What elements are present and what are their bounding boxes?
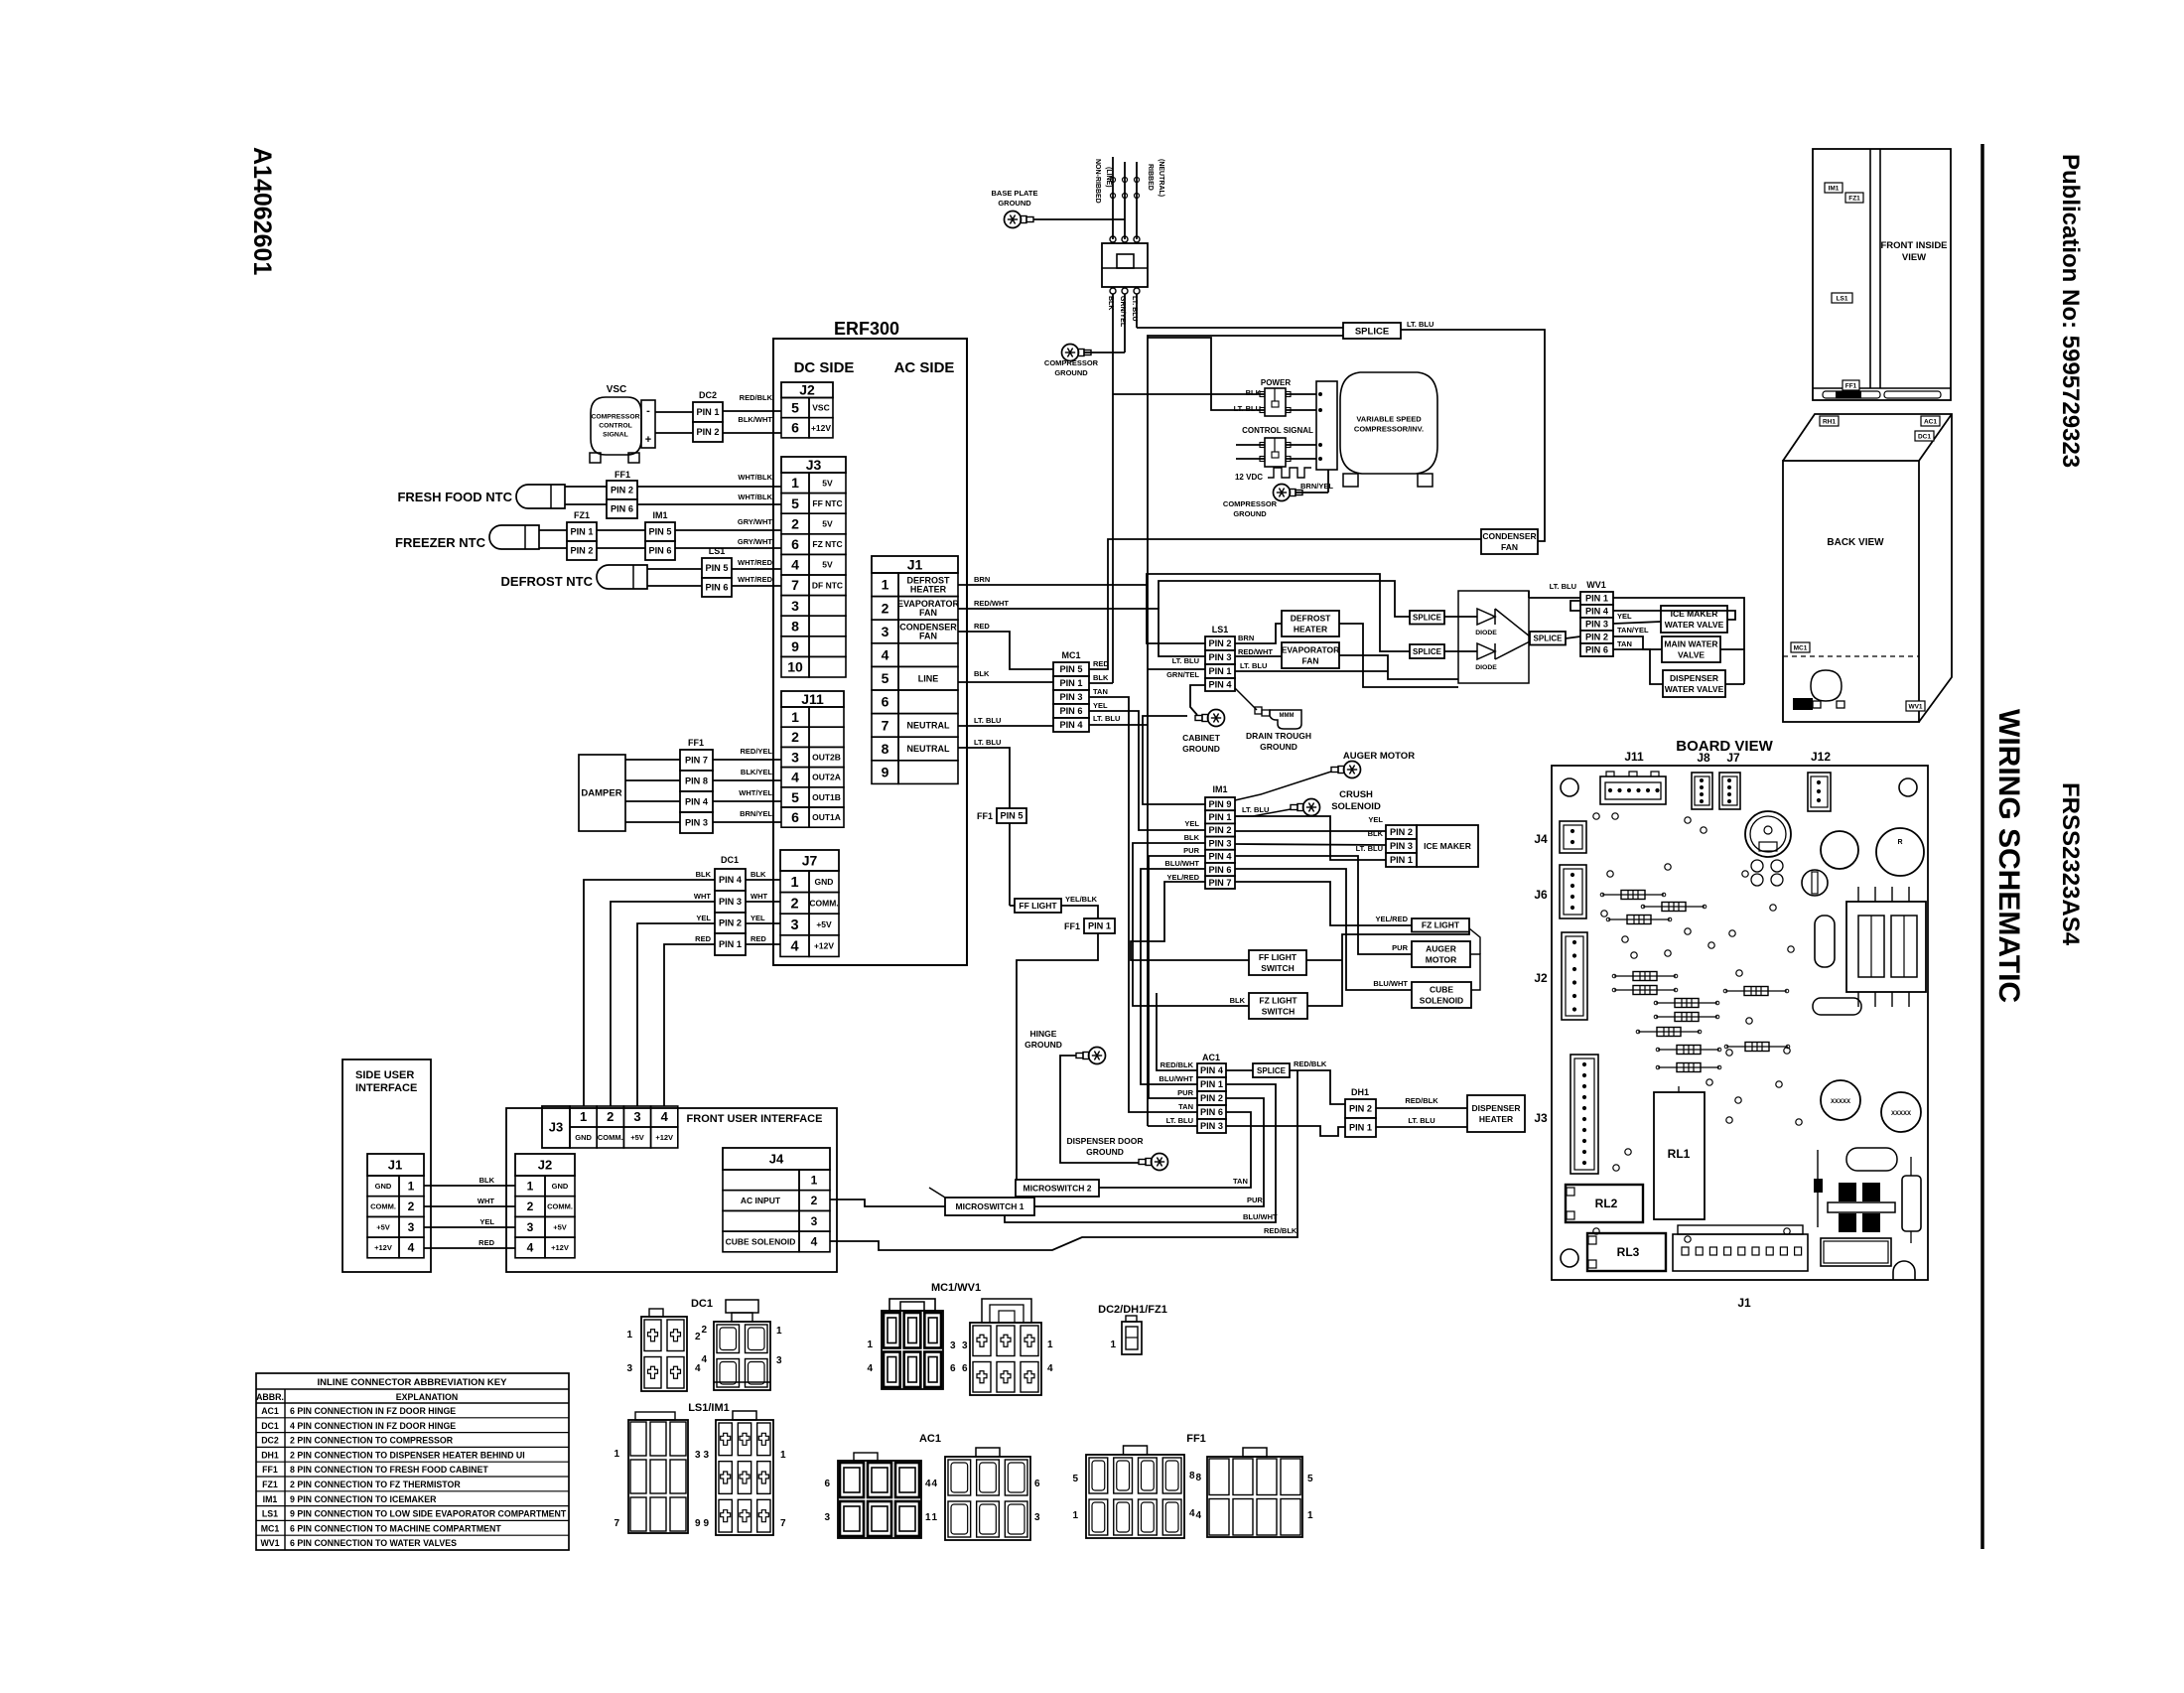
svg-text:YEL: YEL xyxy=(479,1217,494,1226)
svg-text:PIN 5: PIN 5 xyxy=(1001,811,1024,821)
svg-text:OUT1B: OUT1B xyxy=(812,792,841,802)
connector J11 table xyxy=(781,691,844,707)
svg-text:J11: J11 xyxy=(801,691,824,707)
svg-text:GRY/WHT: GRY/WHT xyxy=(738,537,773,546)
svg-text:BLK: BLK xyxy=(974,669,990,678)
board crystal xyxy=(1802,870,1828,896)
svg-text:6 PIN CONNECTION TO WATER VALV: 6 PIN CONNECTION TO WATER VALVES xyxy=(290,1538,457,1548)
svg-text:+12V: +12V xyxy=(551,1243,569,1252)
connector J7 table xyxy=(780,850,839,871)
svg-text:OUT2B: OUT2B xyxy=(812,752,841,762)
svg-text:GND: GND xyxy=(575,1133,592,1142)
svg-text:COMPRESSOR: COMPRESSOR xyxy=(1223,499,1278,508)
svg-text:HEATER: HEATER xyxy=(910,584,947,594)
svg-text:AC1: AC1 xyxy=(1202,1053,1220,1062)
svg-text:PIN 2: PIN 2 xyxy=(611,486,633,495)
svg-text:GROUND: GROUND xyxy=(1260,742,1297,752)
connector face LS1/IM1 plug xyxy=(628,1420,688,1533)
svg-text:RED/BLK: RED/BLK xyxy=(1160,1060,1194,1069)
svg-text:2: 2 xyxy=(607,1109,614,1124)
wire IM1 pin9 to cabinet ground bus xyxy=(1143,716,1205,804)
svg-text:PIN 1: PIN 1 xyxy=(1349,1123,1372,1133)
svg-text:FZ LIGHT: FZ LIGHT xyxy=(1422,920,1460,930)
connector J3 table xyxy=(781,457,846,473)
svg-text:YEL/RED: YEL/RED xyxy=(1375,915,1408,923)
svg-text:INTERFACE: INTERFACE xyxy=(355,1082,417,1094)
svg-text:BLK: BLK xyxy=(1093,673,1109,682)
wire FZ light switch to FZ light xyxy=(1307,931,1469,1006)
wire splice3 to WV1 pin2 xyxy=(1566,636,1580,638)
svg-text:3: 3 xyxy=(408,1220,415,1234)
svg-text:YEL: YEL xyxy=(1617,612,1632,621)
board relay RL1 xyxy=(1654,1092,1705,1219)
connector face DC2/DH1/FZ1 xyxy=(1122,1322,1142,1354)
svg-text:FF LIGHT: FF LIGHT xyxy=(1259,952,1297,962)
svg-text:MAIN WATER: MAIN WATER xyxy=(1664,638,1717,648)
svg-text:MICROSWITCH 2: MICROSWITCH 2 xyxy=(1024,1183,1092,1193)
svg-text:+5V: +5V xyxy=(376,1222,390,1231)
svg-text:1: 1 xyxy=(791,709,799,725)
svg-text:SOLENOID: SOLENOID xyxy=(1331,801,1381,812)
svg-text:3: 3 xyxy=(527,1220,534,1234)
svg-text:LT. BLU: LT. BLU xyxy=(974,716,1001,725)
wire DH1 pin2 to dispenser heater RED/BLK xyxy=(1376,1107,1467,1109)
svg-text:WV1: WV1 xyxy=(260,1538,279,1548)
svg-text:LT. BLU: LT. BLU xyxy=(1407,320,1433,329)
splice box 2 xyxy=(1410,644,1444,658)
wire LS1 pin1 right to neutral rail xyxy=(1235,670,1388,672)
svg-text:FF1: FF1 xyxy=(977,811,993,821)
svg-text:J2: J2 xyxy=(1534,971,1548,985)
label LS1 (front view) xyxy=(1832,293,1852,303)
microswitch 1 xyxy=(945,1198,1034,1215)
svg-text:PIN 3: PIN 3 xyxy=(1209,652,1232,662)
svg-text:FREEZER NTC: FREEZER NTC xyxy=(395,535,486,550)
svg-text:6: 6 xyxy=(1034,1479,1040,1489)
svg-text:AC1: AC1 xyxy=(261,1406,279,1416)
FF light box xyxy=(1015,899,1061,913)
svg-text:YEL/RED: YEL/RED xyxy=(1166,873,1199,882)
svg-text:2 PIN CONNECTION TO COMPRESSOR: 2 PIN CONNECTION TO COMPRESSOR xyxy=(290,1436,454,1446)
svg-text:YEL: YEL xyxy=(696,914,711,922)
svg-text:9: 9 xyxy=(882,765,889,780)
wire AC1 pin3 run to DH1 pin1 xyxy=(1226,1126,1345,1136)
svg-text:LINE: LINE xyxy=(918,673,939,683)
svg-text:3: 3 xyxy=(1034,1512,1040,1523)
wire J1 condenser fan RED to MC1 pin5 xyxy=(958,632,1053,669)
svg-text:FZ1: FZ1 xyxy=(1848,195,1860,202)
variable speed compressor blob xyxy=(1340,372,1437,474)
svg-text:PIN 3: PIN 3 xyxy=(1390,841,1413,851)
svg-text:BLK: BLK xyxy=(751,870,766,879)
svg-text:FF1: FF1 xyxy=(1845,382,1857,389)
svg-text:PIN 1: PIN 1 xyxy=(1585,594,1608,604)
wire J4 AC input to microswitch 1 xyxy=(830,1199,945,1206)
svg-text:WV1: WV1 xyxy=(1586,580,1606,590)
svg-text:4: 4 xyxy=(790,939,798,955)
svg-text:WHT/BLK: WHT/BLK xyxy=(738,473,772,482)
svg-text:BLK/YEL: BLK/YEL xyxy=(741,768,773,776)
svg-text:DIODE: DIODE xyxy=(1475,664,1497,671)
svg-text:FF1: FF1 xyxy=(614,470,630,480)
svg-text:LT. BLU: LT. BLU xyxy=(1242,805,1269,814)
board capacitor C1 xyxy=(1821,831,1858,869)
board output transformer xyxy=(1828,1202,1895,1212)
svg-text:RED/BLK: RED/BLK xyxy=(1294,1059,1327,1068)
svg-text:GRY/WHT: GRY/WHT xyxy=(738,517,773,526)
svg-text:DISPENSER DOOR: DISPENSER DOOR xyxy=(1067,1136,1144,1146)
wire IM1 pin1 to ice maker pin1 (LT.BLU) xyxy=(1235,816,1386,860)
connector J4 table (front UI) xyxy=(723,1148,830,1170)
svg-text:J11: J11 xyxy=(1624,750,1644,764)
dispenser heater box xyxy=(1467,1095,1525,1132)
board mounting holes xyxy=(1561,778,1578,796)
svg-text:+5V: +5V xyxy=(630,1133,644,1142)
splice box 1 xyxy=(1410,611,1444,625)
svg-text:WHT/BLK: WHT/BLK xyxy=(738,493,772,501)
svg-text:SWITCH: SWITCH xyxy=(1261,963,1295,973)
svg-text:WATER VALVE: WATER VALVE xyxy=(1665,620,1724,630)
VSC compressor control signal symbol xyxy=(591,397,641,455)
svg-text:4: 4 xyxy=(811,1235,818,1249)
svg-text:6: 6 xyxy=(962,1363,968,1374)
svg-text:RED/BLK: RED/BLK xyxy=(740,393,773,402)
label FZ1 (front view) xyxy=(1845,193,1863,203)
wire J1 neutral LT.BLU to MC1 pin4 xyxy=(958,725,1053,727)
svg-text:DISPENSER: DISPENSER xyxy=(1471,1103,1520,1113)
svg-text:LS1: LS1 xyxy=(262,1509,278,1519)
svg-text:ABBR.: ABBR. xyxy=(256,1392,284,1402)
wire BLK from terminal down to MC1 xyxy=(1112,294,1114,683)
svg-text:MICROSWITCH 1: MICROSWITCH 1 xyxy=(956,1201,1024,1211)
svg-text:FRONT USER INTERFACE: FRONT USER INTERFACE xyxy=(687,1113,823,1125)
svg-text:2: 2 xyxy=(790,896,798,912)
svg-text:3: 3 xyxy=(776,1355,782,1366)
svg-text:SIGNAL: SIGNAL xyxy=(603,431,628,438)
svg-text:FRONT INSIDE: FRONT INSIDE xyxy=(1880,240,1947,251)
board choke xyxy=(1815,916,1835,967)
svg-text:2: 2 xyxy=(791,515,799,531)
svg-text:7: 7 xyxy=(614,1518,619,1529)
svg-text:5V: 5V xyxy=(822,478,833,488)
svg-text:FF1: FF1 xyxy=(1064,921,1080,931)
svg-text:J1: J1 xyxy=(907,556,923,572)
svg-text:MOTOR: MOTOR xyxy=(1426,954,1456,964)
connector face FF1 plug xyxy=(1086,1455,1184,1538)
svg-text:PIN 4: PIN 4 xyxy=(1200,1065,1224,1075)
supply wires to terminal block xyxy=(1112,157,1114,239)
svg-text:YEL: YEL xyxy=(751,914,765,922)
svg-text:1: 1 xyxy=(811,1174,818,1188)
svg-text:CUBE: CUBE xyxy=(1430,984,1453,994)
svg-text:DEFROST: DEFROST xyxy=(1291,613,1331,623)
svg-text:SPLICE: SPLICE xyxy=(1257,1066,1287,1075)
board bottom right component xyxy=(1821,1238,1891,1266)
svg-text:FZ NTC: FZ NTC xyxy=(812,539,842,549)
svg-text:3: 3 xyxy=(824,1512,830,1523)
svg-text:SOLENOID: SOLENOID xyxy=(1420,995,1463,1005)
svg-text:WV1: WV1 xyxy=(1908,703,1922,710)
svg-text:1: 1 xyxy=(1110,1340,1116,1350)
svg-text:OUT1A: OUT1A xyxy=(812,812,841,822)
connector face AC1 socket xyxy=(945,1457,1030,1540)
svg-text:LT. BLU: LT. BLU xyxy=(1093,714,1120,723)
connector J3 header table (front UI) xyxy=(542,1106,570,1148)
compressor ground lug 2 xyxy=(1274,485,1291,501)
back view cabinet outline xyxy=(1783,461,1919,722)
svg-text:WATER VALVE: WATER VALVE xyxy=(1665,684,1724,694)
svg-text:3: 3 xyxy=(791,749,799,765)
auger motor box xyxy=(1412,941,1470,967)
svg-text:5: 5 xyxy=(791,789,799,805)
svg-text:J4: J4 xyxy=(1534,832,1548,846)
svg-text:4: 4 xyxy=(1195,1510,1201,1521)
svg-text:FF NTC: FF NTC xyxy=(812,498,842,508)
svg-text:AC1: AC1 xyxy=(919,1433,941,1445)
svg-text:1: 1 xyxy=(527,1180,534,1194)
svg-text:WHT/YEL: WHT/YEL xyxy=(739,788,772,797)
wire evaporator fan return xyxy=(1339,655,1458,679)
wire J1 neutral LT.BLU to FF1 pin5 xyxy=(958,748,1010,808)
svg-text:IM1: IM1 xyxy=(1212,784,1227,794)
svg-text:NEUTRAL: NEUTRAL xyxy=(907,721,950,731)
label DC1 (back view) xyxy=(1915,431,1934,441)
svg-text:J6: J6 xyxy=(1534,888,1548,902)
svg-text:PIN 6: PIN 6 xyxy=(1209,865,1232,875)
svg-text:SPLICE: SPLICE xyxy=(1413,647,1442,656)
svg-text:YEL/BLK: YEL/BLK xyxy=(1065,895,1098,904)
wire MC1 pin6 YEL to IM1 pin2 xyxy=(1089,711,1205,830)
svg-text:R: R xyxy=(1897,839,1902,846)
svg-text:1: 1 xyxy=(780,1450,786,1461)
front inside view refrigerator outline xyxy=(1813,149,1951,400)
svg-text:PIN 2: PIN 2 xyxy=(1585,633,1608,642)
label AC1 (back view) xyxy=(1921,416,1940,426)
svg-text:J12: J12 xyxy=(1811,750,1831,764)
compressor ground lug 1 xyxy=(1062,345,1079,361)
svg-text:LS1: LS1 xyxy=(709,546,726,556)
svg-text:LS1: LS1 xyxy=(1212,625,1229,635)
front user interface box xyxy=(506,1108,837,1272)
wire WV1 pin6 to dispenser valve xyxy=(1613,649,1663,684)
svg-text:PIN 4: PIN 4 xyxy=(719,875,743,885)
terminal block xyxy=(1102,243,1148,287)
FZ light box xyxy=(1412,918,1469,932)
svg-text:BLK: BLK xyxy=(1230,996,1246,1005)
wire auger lug to IM1 xyxy=(1235,772,1331,800)
svg-text:PIN 2: PIN 2 xyxy=(1349,1104,1372,1114)
wire DC2 to J2 xyxy=(723,410,781,412)
svg-text:PIN 3: PIN 3 xyxy=(1209,838,1232,848)
svg-text:CRUSH: CRUSH xyxy=(1339,789,1373,800)
svg-text:FZ LIGHT: FZ LIGHT xyxy=(1259,995,1297,1005)
svg-text:J1: J1 xyxy=(388,1158,402,1173)
svg-text:9: 9 xyxy=(703,1518,709,1529)
svg-text:RED: RED xyxy=(751,934,766,943)
svg-text:GROUND: GROUND xyxy=(998,199,1031,208)
svg-text:4: 4 xyxy=(931,1479,937,1489)
svg-text:AUGER: AUGER xyxy=(1426,943,1456,953)
svg-text:VALVE: VALVE xyxy=(1678,649,1705,659)
svg-text:RED: RED xyxy=(1093,659,1109,668)
svg-text:DRAIN TROUGH: DRAIN TROUGH xyxy=(1246,731,1311,741)
svg-text:GND: GND xyxy=(375,1182,392,1191)
svg-text:IM1: IM1 xyxy=(263,1494,278,1504)
wire GRN/YEL terminal to compressor ground xyxy=(1124,294,1126,353)
svg-text:6: 6 xyxy=(882,694,889,710)
svg-text:FZ1: FZ1 xyxy=(574,510,590,520)
svg-text:2 PIN CONNECTION TO FZ THERMIS: 2 PIN CONNECTION TO FZ THERMISTOR xyxy=(290,1480,461,1489)
svg-text:2 PIN CONNECTION TO DISPENSER: 2 PIN CONNECTION TO DISPENSER HEATER BEH… xyxy=(290,1450,525,1460)
wire J1 line BLK to MC1 pin1 xyxy=(958,681,1053,683)
svg-text:DC1: DC1 xyxy=(261,1421,279,1431)
back view compressor xyxy=(1811,670,1842,701)
svg-text:4 PIN CONNECTION IN FZ DOOR HI: 4 PIN CONNECTION IN FZ DOOR HINGE xyxy=(290,1421,456,1431)
wire ice maker valve return to pin4 xyxy=(1613,611,1735,620)
board electrolytic cap xyxy=(1902,1176,1921,1231)
svg-text:GND: GND xyxy=(552,1182,569,1191)
svg-text:PIN 1: PIN 1 xyxy=(1200,1079,1223,1089)
svg-text:5: 5 xyxy=(1072,1474,1078,1484)
wires DC1 to front user interface J3 xyxy=(584,880,715,1106)
svg-text:WHT: WHT xyxy=(751,892,767,901)
svg-text:PUR: PUR xyxy=(1177,1088,1193,1097)
svg-text:2: 2 xyxy=(882,600,889,616)
svg-text:MC1: MC1 xyxy=(1794,644,1808,651)
svg-text:BASE PLATE: BASE PLATE xyxy=(992,189,1038,198)
svg-text:4: 4 xyxy=(408,1241,415,1255)
inverter block xyxy=(1316,381,1337,470)
svg-text:PUR: PUR xyxy=(1247,1196,1263,1204)
wire microswitch to AC1 pin1 (BLU/WHT) xyxy=(1005,1084,1276,1222)
wire J1 evaporator fan RED/WHT xyxy=(958,609,1205,656)
svg-text:ERF300: ERF300 xyxy=(834,319,899,339)
board connector J11 xyxy=(1600,776,1666,804)
svg-text:FZ1: FZ1 xyxy=(262,1480,278,1489)
board notch xyxy=(1893,1261,1915,1280)
svg-text:+12V: +12V xyxy=(811,423,831,433)
svg-text:4: 4 xyxy=(1189,1508,1195,1519)
svg-text:EVAPORATOR: EVAPORATOR xyxy=(1282,644,1340,654)
svg-text:3: 3 xyxy=(695,1450,701,1461)
svg-text:HINGE: HINGE xyxy=(1030,1029,1057,1039)
svg-text:TAN: TAN xyxy=(1233,1177,1248,1186)
wires splices to diodes xyxy=(1444,616,1477,618)
wire WV1 pin3 to ice maker valve xyxy=(1613,622,1661,624)
microswitch 2 xyxy=(1016,1180,1099,1197)
svg-text:CONTROL: CONTROL xyxy=(599,422,632,429)
svg-text:J8: J8 xyxy=(1697,751,1710,765)
wire fresh food ntc to J3 xyxy=(565,486,781,488)
svg-text:+5V: +5V xyxy=(816,919,832,929)
evaporator fan box xyxy=(1282,642,1339,668)
wire IM1 pin6 BLU/WHT to cube solenoid xyxy=(1235,869,1412,990)
svg-text:PIN 4: PIN 4 xyxy=(685,797,709,807)
wire LS1 pin4 to drain trough ground xyxy=(1235,688,1257,710)
svg-text:PIN 4: PIN 4 xyxy=(1209,852,1233,862)
svg-text:1: 1 xyxy=(867,1340,873,1350)
label FF1 (front view) xyxy=(1843,380,1859,390)
connector face MC1/WV1 plug xyxy=(882,1311,943,1389)
svg-text:8: 8 xyxy=(791,618,799,634)
svg-text:FF1: FF1 xyxy=(688,738,704,748)
wire BLK to power connector xyxy=(1113,393,1265,395)
front inside view door slots xyxy=(1823,391,1880,398)
ice maker box xyxy=(1417,825,1478,867)
svg-text:PIN 1: PIN 1 xyxy=(1390,855,1413,865)
svg-text:BLK: BLK xyxy=(479,1176,495,1185)
svg-text:WIRING SCHEMATIC: WIRING SCHEMATIC xyxy=(1992,709,2025,1003)
svg-text:BLK: BLK xyxy=(696,870,712,879)
svg-text:8: 8 xyxy=(1189,1471,1195,1481)
label WV1 (back view) xyxy=(1906,701,1925,711)
svg-text:PIN 2: PIN 2 xyxy=(719,918,742,928)
board vias xyxy=(1593,813,1599,819)
wire valve returns to pin1 xyxy=(1720,648,1744,650)
svg-text:RIBBED: RIBBED xyxy=(1147,164,1154,191)
svg-text:RL1: RL1 xyxy=(1668,1147,1691,1161)
svg-text:LT. BLU: LT. BLU xyxy=(1408,1116,1434,1125)
svg-text:FAN: FAN xyxy=(919,608,937,618)
wire terminal BLK to MC1 pin1 right xyxy=(1089,682,1113,684)
wire VSC to DC2 xyxy=(655,411,693,413)
svg-text:BLU/WHT: BLU/WHT xyxy=(1373,979,1408,988)
svg-text:SPLICE: SPLICE xyxy=(1355,326,1389,337)
svg-text:MC1/WV1: MC1/WV1 xyxy=(931,1282,981,1294)
wire MC1 pin4 to LT.BLU bus xyxy=(1089,724,1148,726)
svg-text:9: 9 xyxy=(695,1518,701,1529)
svg-text:COMPRESSOR: COMPRESSOR xyxy=(1044,358,1099,367)
wire FF1 pin5 to FF light xyxy=(1009,823,1011,906)
svg-text:RED/BLK: RED/BLK xyxy=(1405,1096,1438,1105)
svg-text:PIN 6: PIN 6 xyxy=(706,583,729,593)
wires damper to J11 xyxy=(625,759,781,761)
svg-text:2: 2 xyxy=(811,1194,818,1207)
svg-text:1: 1 xyxy=(790,875,798,891)
svg-text:GROUND: GROUND xyxy=(1182,744,1220,754)
svg-text:GROUND: GROUND xyxy=(1054,368,1088,377)
drain trough ground tray xyxy=(1255,707,1262,714)
svg-text:TAN: TAN xyxy=(1178,1102,1193,1111)
svg-text:PIN 5: PIN 5 xyxy=(649,527,672,537)
svg-text:RED: RED xyxy=(974,622,990,631)
svg-text:DH1: DH1 xyxy=(261,1450,279,1460)
svg-text:BLU/WHT: BLU/WHT xyxy=(1243,1212,1278,1221)
svg-text:6: 6 xyxy=(791,536,799,552)
svg-text:3: 3 xyxy=(950,1340,956,1351)
splice box AC1 xyxy=(1253,1063,1290,1077)
svg-text:DC1: DC1 xyxy=(691,1298,713,1310)
svg-text:COMM.: COMM. xyxy=(547,1202,573,1211)
svg-text:(NEUTRAL): (NEUTRAL) xyxy=(1158,159,1164,197)
svg-text:PIN 2: PIN 2 xyxy=(1209,638,1232,648)
svg-text:CONTROL SIGNAL: CONTROL SIGNAL xyxy=(1242,426,1313,435)
svg-text:PIN 5: PIN 5 xyxy=(1060,664,1083,674)
svg-text:PIN 5: PIN 5 xyxy=(706,563,729,573)
svg-text:J3: J3 xyxy=(549,1120,563,1135)
wire condenser fan to MC1 pin5 (RED) xyxy=(1089,539,1481,669)
svg-text:(LINE): (LINE) xyxy=(1105,167,1112,188)
svg-text:PIN 9: PIN 9 xyxy=(1209,799,1232,809)
svg-text:PIN 7: PIN 7 xyxy=(1209,878,1232,888)
FZ light switch box xyxy=(1249,993,1307,1019)
svg-text:4: 4 xyxy=(695,1363,701,1374)
wire defrost heater return xyxy=(1339,624,1458,687)
wire IM1 pin3 to ice maker pin3 (BLK) xyxy=(1235,844,1386,845)
svg-text:FF1: FF1 xyxy=(1186,1433,1206,1445)
svg-text:SIDE USER: SIDE USER xyxy=(355,1069,414,1081)
svg-text:LS1: LS1 xyxy=(1837,295,1848,302)
